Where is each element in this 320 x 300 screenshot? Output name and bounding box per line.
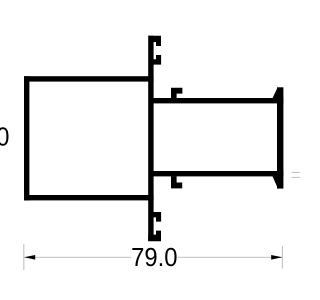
right box: bottom chamfer — [272, 176, 277, 188]
bottom C-groove — [148, 231, 161, 242]
top C-groove lower hook — [153, 55, 161, 65]
central vertical wall — [148, 36, 153, 241]
faint continuation line upper (right margin) — [292, 172, 301, 173]
right box: top chamfer — [272, 88, 277, 99]
profile left box: top edge — [24, 76, 154, 81]
dimension extension line right — [282, 246, 283, 269]
svg-text:0: 0 — [0, 121, 9, 151]
dimension arrow left — [24, 255, 35, 260]
bottom C-groove upper hook — [153, 212, 161, 222]
right box: top edge — [153, 98, 283, 103]
dimension line right segment — [178, 257, 283, 258]
top C-groove — [148, 36, 161, 46]
dimension line left segment — [25, 257, 132, 258]
right box: bottom edge — [153, 171, 283, 176]
faint continuation line lower (right margin) — [292, 177, 301, 178]
top hook tab — [171, 88, 182, 99]
bottom hook tab — [171, 176, 182, 188]
dimension arrow right — [271, 255, 282, 260]
dimension extension line left — [23, 244, 24, 270]
profile left box: left edge — [24, 76, 29, 200]
right box: outer right wall — [277, 87, 283, 188]
profile left box: bottom edge — [24, 195, 154, 200]
svg-text:79.0: 79.0 — [131, 242, 177, 272]
